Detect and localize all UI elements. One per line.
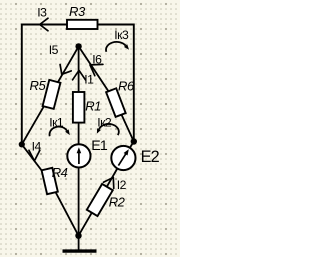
bottom reference bar — [63, 249, 97, 252]
svg-text:Iк1: Iк1 — [49, 116, 64, 130]
resistor R5 — [43, 80, 61, 109]
node bottom — [75, 233, 81, 239]
svg-text:R3: R3 — [69, 4, 86, 19]
source E1 — [67, 144, 90, 167]
svg-text:I5: I5 — [49, 43, 59, 57]
source E2 — [111, 146, 135, 170]
current arrow I1 — [73, 70, 86, 80]
mesh current arc Ik2 (counter-clockwise) — [99, 124, 119, 135]
svg-text:I6: I6 — [92, 52, 102, 66]
node left — [19, 141, 25, 147]
svg-text:R1: R1 — [85, 99, 101, 114]
svg-text:I4: I4 — [32, 139, 42, 153]
svg-text:R4: R4 — [52, 165, 68, 180]
mesh current arc Ik1 — [49, 127, 66, 137]
svg-text:E2: E2 — [141, 148, 160, 166]
resistor R3 — [67, 20, 98, 29]
svg-text:I2: I2 — [117, 178, 127, 192]
svg-text:R6: R6 — [118, 79, 135, 94]
resistor R6 — [106, 88, 126, 117]
svg-text:Iк2: Iк2 — [97, 115, 112, 129]
wire: R4 branch (left node down to bottom node) — [22, 144, 79, 235]
wire: R6 branch (hub to right node) — [79, 46, 134, 141]
paper background — [0, 0, 180, 257]
svg-text:E1: E1 — [91, 138, 108, 154]
svg-text:Iк3: Iк3 — [114, 28, 129, 42]
svg-text:R5: R5 — [30, 78, 47, 93]
svg-text:R2: R2 — [109, 195, 126, 210]
mesh current arc Ik3 — [106, 42, 126, 52]
current arrow I6 — [90, 64, 103, 75]
resistor R2 — [87, 184, 113, 216]
current arrow I2 — [103, 177, 113, 188]
node right — [131, 138, 137, 144]
resistor R4 — [42, 168, 58, 194]
wire: R1/E1 branch (hub straight down to bottom bar) — [78, 46, 80, 251]
wire: outer loop (left vertical, top wire, right vertical) — [22, 25, 134, 145]
current arrow I5 — [60, 64, 71, 74]
wire: R5 branch (hub to left node) — [22, 46, 79, 144]
resistor R1 — [73, 92, 85, 123]
svg-text:I3: I3 — [37, 6, 47, 20]
node hub (top center) — [75, 43, 81, 49]
svg-text:I1: I1 — [84, 72, 94, 86]
current arrow I3 — [40, 18, 48, 31]
wire: E2/R2 branch (right node down to bottom node) — [79, 142, 134, 236]
current arrow I4 — [29, 150, 40, 161]
